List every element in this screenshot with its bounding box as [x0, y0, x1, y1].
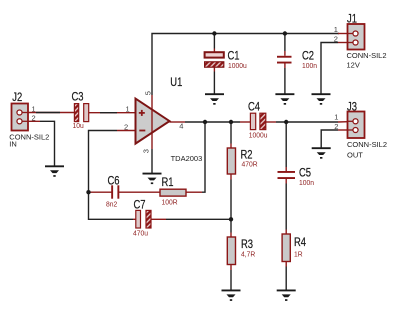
- svg-text:1: 1: [126, 105, 130, 114]
- svg-text:2: 2: [124, 123, 128, 132]
- svg-text:2: 2: [334, 34, 338, 43]
- wire R3 to ground: [230, 265, 232, 271]
- resistor R4: [282, 234, 290, 262]
- resistor R1: [160, 189, 186, 196]
- svg-text:R4: R4: [294, 236, 306, 249]
- svg-text:100R: 100R: [162, 198, 178, 206]
- svg-text:1000u: 1000u: [249, 131, 268, 139]
- wire C2 column: [284, 34, 286, 52]
- wire C7 to node B: [151, 218, 166, 220]
- svg-text:10u: 10u: [73, 121, 84, 129]
- wire J1 pin1 stub: [338, 33, 348, 35]
- wire node A to C6: [89, 191, 113, 193]
- capacitor C1: [205, 52, 224, 67]
- svg-text:100n: 100n: [302, 61, 317, 69]
- capacitor C3: [74, 104, 88, 122]
- svg-text:2: 2: [334, 122, 338, 131]
- wire C6 to R1: [118, 191, 160, 193]
- capacitor C7: [136, 210, 151, 228]
- junction node output at R1 branch: [203, 120, 207, 124]
- svg-text:1000u: 1000u: [228, 61, 247, 69]
- wire R1 to output rail: [186, 191, 202, 193]
- wire C5 column: [285, 122, 287, 167]
- svg-text:1R: 1R: [294, 250, 303, 258]
- wire C1 column: [213, 34, 215, 49]
- svg-text:IN: IN: [9, 139, 16, 148]
- connector J1: [348, 24, 365, 50]
- ground below C2: [275, 94, 294, 105]
- wire U1 -input to node A: [117, 130, 136, 132]
- svg-text:CONN-SIL2: CONN-SIL2: [347, 140, 387, 149]
- capacitor C5: [278, 171, 296, 179]
- wire C5 to R4: [285, 179, 287, 184]
- svg-text:C7: C7: [134, 199, 146, 212]
- ground below J2: [45, 166, 64, 177]
- wire node A down to C7: [89, 192, 134, 219]
- svg-text:R1: R1: [162, 176, 174, 189]
- op-amp U1: [136, 99, 170, 144]
- ground below J3 pin2: [312, 148, 331, 159]
- junction node on rail at C1: [212, 31, 216, 35]
- svg-text:J2: J2: [12, 91, 22, 104]
- wire R4 to ground: [285, 262, 287, 267]
- svg-text:4: 4: [179, 122, 183, 131]
- ground below R3: [222, 290, 241, 301]
- svg-text:4,7R: 4,7R: [241, 250, 255, 258]
- svg-text:470R: 470R: [242, 160, 258, 168]
- ground below U1 pin3: [143, 174, 162, 184]
- svg-text:CONN-SIL2: CONN-SIL2: [347, 51, 387, 60]
- svg-text:1: 1: [334, 112, 338, 121]
- svg-text:TDA2003: TDA2003: [171, 154, 203, 163]
- junction node output at C5: [284, 120, 288, 124]
- connector J3: [348, 112, 365, 139]
- capacitor C6: [111, 185, 119, 198]
- svg-text:3: 3: [142, 149, 151, 153]
- resistor R3: [227, 237, 235, 265]
- svg-text:470u: 470u: [133, 229, 148, 237]
- wire U1 output rail to J3: [170, 121, 186, 123]
- svg-text:J1: J1: [347, 13, 357, 26]
- capacitor C4: [250, 113, 265, 129]
- svg-text:1: 1: [334, 25, 338, 34]
- svg-text:J3: J3: [347, 101, 357, 114]
- junction node output at R2: [229, 120, 233, 124]
- ground below J1 pin2: [312, 94, 331, 105]
- svg-text:1: 1: [32, 104, 36, 113]
- svg-text:C4: C4: [248, 101, 260, 114]
- junction node on rail at C2: [283, 31, 287, 35]
- wire R2 top: [230, 122, 232, 144]
- svg-text:8n2: 8n2: [106, 200, 117, 208]
- svg-text:100n: 100n: [299, 179, 314, 187]
- resistor R2: [227, 148, 235, 174]
- junction node A: [86, 190, 90, 194]
- wire J2 pin1 to C3: [20, 112, 75, 114]
- svg-text:12V: 12V: [347, 60, 360, 69]
- svg-text:2: 2: [32, 113, 36, 122]
- wire C3 to U1 +input: [89, 112, 136, 114]
- svg-text:C3: C3: [72, 91, 84, 104]
- svg-text:5: 5: [144, 91, 153, 95]
- wire J1 pin2 to ground: [338, 42, 348, 44]
- connector J2: [12, 104, 29, 131]
- wire node B to R3: [230, 219, 232, 232]
- svg-text:U1: U1: [170, 76, 182, 89]
- ground below R4: [277, 290, 296, 301]
- wire J3 pin2 to ground: [338, 129, 348, 131]
- svg-text:OUT: OUT: [347, 150, 363, 159]
- junction node B: [229, 217, 233, 221]
- ground below C1: [205, 94, 224, 105]
- capacitor C2: [277, 56, 292, 64]
- wire U1 pin5 pin3 vertical red part: [151, 95, 153, 149]
- wire top rail: [152, 34, 339, 96]
- wire J2 pin2 to ground: [20, 120, 41, 122]
- wire R2 bottom to node B: [230, 174, 232, 180]
- svg-text:C6: C6: [108, 175, 120, 188]
